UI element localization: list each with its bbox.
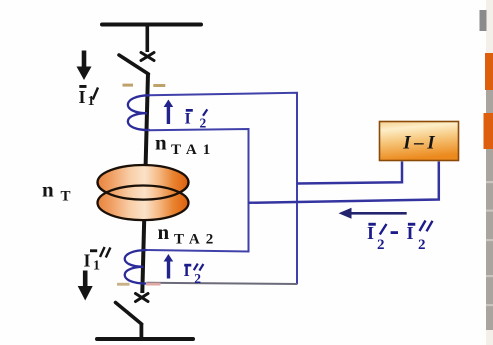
svg-text:2: 2 <box>377 237 385 253</box>
CT TA1 secondary coil <box>128 95 150 130</box>
wire: main primary conductor <box>142 73 148 293</box>
svg-text:I: I <box>407 223 414 243</box>
svg-text:2: 2 <box>418 237 426 253</box>
label I1'' <box>84 247 111 274</box>
wire: stub from top busbar to breaker contact <box>146 26 150 52</box>
label I2'' <box>184 263 204 286</box>
CT TA2 secondary coil <box>125 250 147 284</box>
arrow I1'' (primary current bottom) <box>78 271 93 301</box>
label I2' <box>185 109 208 131</box>
svg-text:n: n <box>158 220 170 244</box>
label I2' - I2'' <box>367 221 433 254</box>
svg-text:1: 1 <box>93 259 100 274</box>
svg-text:2: 2 <box>194 271 201 286</box>
wire: TA2 bottom terminal return (greyed segment) <box>147 283 298 284</box>
page sidebar fragment: scrollbar thumb <box>480 10 487 31</box>
wire: relay right pin to riser B <box>249 162 439 203</box>
svg-text:2: 2 <box>200 116 207 131</box>
transformer upper torus front arc redraw <box>98 182 189 199</box>
page sidebar fragment: gray column <box>486 0 493 345</box>
arrow I1' (primary current top) <box>77 51 92 81</box>
svg-text:I: I <box>84 251 91 271</box>
svg-text:I: I <box>185 111 191 128</box>
label n_TA2 <box>158 220 220 248</box>
relay KD box I-I <box>380 122 459 161</box>
breaker QF1 blade <box>119 55 148 74</box>
transformer nT winding 2 (lower torus) <box>98 186 189 221</box>
label I1' <box>79 85 99 109</box>
arrow I2'-I2'' (differential current, left) <box>339 208 407 219</box>
svg-text:I: I <box>184 263 190 280</box>
svg-text:T: T <box>61 189 71 205</box>
CT TA2 core dashes <box>117 283 130 286</box>
page sidebar fragment: orange block 2 <box>484 113 493 149</box>
svg-text:TA2: TA2 <box>174 232 219 248</box>
breaker QF2 blade <box>116 303 142 325</box>
svg-text:I–I: I–I <box>402 132 438 153</box>
svg-text:I: I <box>367 223 374 243</box>
wire: blade to bottom busbar <box>139 323 143 339</box>
svg-text:TA1: TA1 <box>171 142 216 158</box>
svg-text:n: n <box>155 131 167 155</box>
page sidebar fragment: separators <box>486 181 493 306</box>
wire: TA1 bottom terminal to riser B (blue loop inner) <box>147 129 249 252</box>
wire: relay left pin to riser A <box>297 162 402 184</box>
page sidebar fragment: orange block 1 <box>485 53 493 90</box>
CT TA1 core dashes <box>123 84 134 87</box>
wire: TA1 top terminal to riser A (blue loop outer) <box>149 93 297 284</box>
busbar bottom <box>97 337 193 341</box>
svg-text:n: n <box>42 178 54 202</box>
label n_T <box>42 178 71 205</box>
label n_TA1 <box>155 131 216 159</box>
arrow I2' (secondary current top, up) <box>164 100 174 125</box>
breaker QF1 contact cross <box>141 53 154 61</box>
arrow I2'' (secondary current bottom, up) <box>164 254 174 279</box>
svg-text:I: I <box>79 87 86 107</box>
transformer nT winding 1 (upper torus) <box>98 165 189 200</box>
breaker QF2 contact cross <box>136 294 149 302</box>
busbar top <box>102 23 201 27</box>
